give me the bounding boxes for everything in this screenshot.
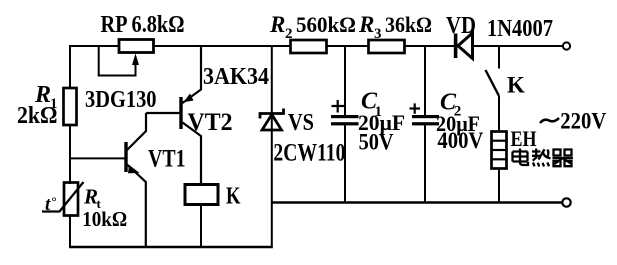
VT2 emitter arrow (PNP): [184, 94, 194, 103]
thermistor Rt diagonal: [42, 182, 84, 212]
svg-text:EH: EH: [511, 126, 537, 151]
VT2 emitter wire: [183, 46, 202, 103]
label Rt: [83, 184, 102, 211]
switch lower lead: [498, 96, 500, 132]
wire K coil to bottom rail: [200, 205, 202, 248]
heater EH: [492, 132, 507, 203]
wire top rail VD to terminal: [473, 45, 564, 47]
svg-text:RP 6.8kΩ: RP 6.8kΩ: [101, 11, 185, 38]
svg-text:3: 3: [374, 26, 382, 42]
capacitor C2: [410, 46, 440, 203]
svg-text:1N4007: 1N4007: [487, 16, 553, 42]
VT1 base bar: [124, 142, 127, 172]
thermistor Rt: [64, 183, 78, 216]
VT2 base bar: [179, 97, 182, 129]
C1 bottom lead: [344, 125, 346, 202]
VT1 collector: [127, 113, 146, 150]
svg-text:400V: 400V: [437, 128, 483, 153]
svg-text:K: K: [226, 184, 241, 210]
C2 bottom plate: [412, 122, 439, 125]
wire top rail left segment: [70, 45, 119, 47]
switch blade: [486, 70, 500, 96]
VT2 collector: [183, 123, 202, 185]
svg-text:2kΩ: 2kΩ: [17, 103, 58, 129]
label dian re qi (Chinese heater): [513, 149, 574, 167]
VT1 base wire: [69, 157, 125, 159]
svg-text:2: 2: [285, 26, 293, 42]
label C1: [361, 89, 382, 121]
C2 plus sign: [410, 103, 421, 113]
VD cathode bar: [454, 34, 458, 59]
svg-text:36kΩ: 36kΩ: [385, 12, 432, 37]
diode VD: [454, 33, 473, 59]
C2 bottom lead: [424, 125, 426, 202]
wire left vertical R1 to Rt: [69, 125, 71, 184]
svg-text:°: °: [52, 194, 57, 209]
label R3: [358, 12, 432, 42]
resistor R2: [291, 40, 327, 53]
svg-text:VT2: VT2: [188, 109, 233, 136]
transistor VT2: [179, 46, 201, 185]
VD triangle: [458, 33, 473, 59]
svg-text:10kΩ: 10kΩ: [82, 207, 127, 231]
label C2: [440, 90, 461, 120]
potentiometer RP: [119, 40, 154, 53]
label t deg: [45, 194, 57, 216]
resistor R3: [369, 40, 405, 53]
wire bottom-right rail: [272, 201, 562, 203]
VS triangle: [262, 115, 282, 131]
svg-text:2CW110: 2CW110: [273, 140, 345, 167]
switch K: [486, 46, 500, 132]
VS cathode bar: [260, 109, 284, 119]
C2 top lead: [424, 46, 426, 115]
svg-text:R: R: [269, 12, 285, 37]
wire middle vertical (zener branch): [271, 46, 273, 247]
svg-text:R: R: [358, 12, 374, 37]
C1 top plate: [331, 115, 359, 118]
label R2: [269, 12, 356, 42]
svg-text:K: K: [507, 73, 525, 98]
C1 plus sign: [332, 100, 345, 113]
svg-text:560kΩ: 560kΩ: [296, 12, 356, 37]
svg-text:220V: 220V: [560, 109, 606, 135]
C2 top plate: [412, 115, 439, 118]
label R1: [34, 82, 58, 112]
wire top rail R2 to R3: [327, 45, 369, 47]
terminal bottom right: [562, 198, 570, 206]
svg-text:50V: 50V: [359, 130, 394, 155]
EH bottom lead: [498, 169, 500, 203]
svg-text:3AK34: 3AK34: [203, 63, 269, 90]
zener diode VS: [260, 109, 284, 131]
VT1 emitter: [127, 165, 146, 248]
svg-text:VS: VS: [288, 109, 314, 136]
switch upper lead: [498, 46, 500, 69]
wire top rail pot to R2: [154, 45, 291, 47]
svg-text:VD: VD: [446, 13, 476, 39]
C1 top lead: [344, 46, 346, 115]
wire bottom-left rail: [69, 246, 273, 248]
svg-text:3DG130: 3DG130: [85, 86, 157, 113]
VT1 link to VT2 base: [146, 112, 180, 114]
resistor R1: [64, 88, 77, 125]
VT1 emitter arrow: [128, 165, 140, 173]
C1 bottom plate: [331, 122, 359, 125]
RP wiper arrow: [132, 54, 139, 66]
wire top rail R3 to VD: [405, 45, 455, 47]
relay coil K: [185, 185, 218, 205]
svg-text:VT1: VT1: [148, 146, 186, 173]
wire RP wiper bracket: [99, 46, 136, 76]
capacitor C1: [331, 46, 359, 203]
terminal top right: [563, 42, 570, 49]
svg-text:t: t: [45, 194, 51, 215]
wire left vertical Rt to bottom: [69, 216, 71, 249]
label 220V AC: [540, 109, 606, 135]
wire left vertical rail upper: [69, 45, 71, 88]
transistor VT1: [69, 113, 180, 247]
